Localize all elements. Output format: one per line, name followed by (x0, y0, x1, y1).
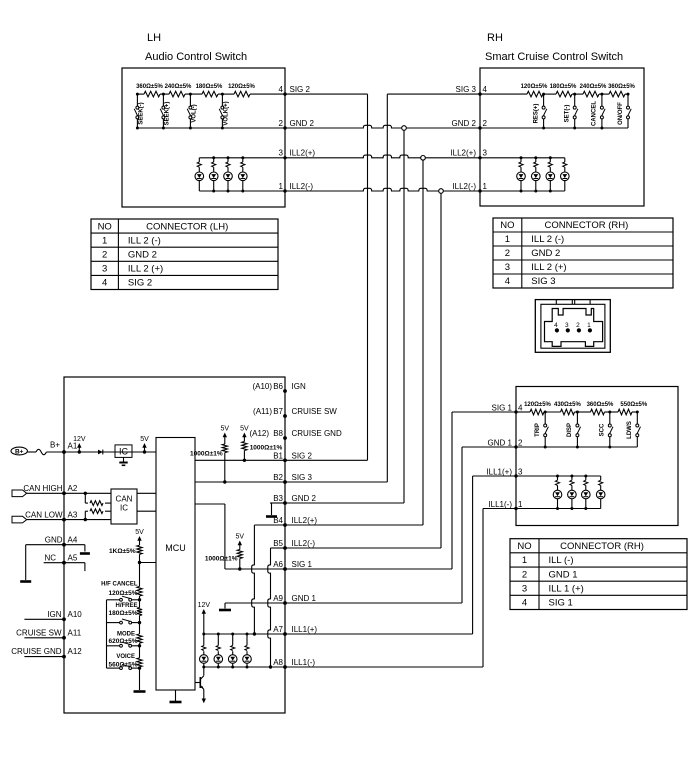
LED D10 pod (568, 476, 577, 509)
svg-text:5V: 5V (240, 426, 249, 433)
svg-text:DISP: DISP (567, 423, 573, 437)
svg-text:2: 2 (576, 322, 580, 329)
svg-text:CONNECTOR (LH): CONNECTOR (LH) (146, 221, 228, 232)
wire A5 NC stub (44, 563, 85, 571)
transistor Q1 (195, 667, 204, 689)
svg-text:H/FREE: H/FREE (115, 603, 137, 609)
svg-text:180Ω±5%: 180Ω±5% (550, 84, 577, 90)
svg-text:2: 2 (279, 119, 284, 128)
wire LH GND2 (136, 127, 285, 129)
resistor 1K ladder (109, 545, 142, 562)
svg-text:2: 2 (505, 248, 510, 259)
CAN IC U2 (111, 489, 137, 524)
wire A6 from MCU (195, 504, 285, 569)
resistor 1000 ohm A6 (205, 550, 243, 570)
svg-text:CAN LOW: CAN LOW (25, 510, 63, 519)
svg-text:ILL1(-): ILL1(-) (292, 658, 316, 667)
svg-text:3: 3 (565, 322, 569, 329)
pin A2 CAN HIGH (23, 484, 77, 495)
svg-text:5V: 5V (140, 436, 149, 443)
ground ladder (134, 690, 146, 693)
wire B3 stub (270, 503, 285, 515)
svg-text:2: 2 (522, 569, 527, 580)
svg-text:CANCEL: CANCEL (592, 101, 598, 126)
junction A6 pullup (238, 567, 241, 570)
diode D1 (98, 450, 103, 455)
pin A3 CAN LOW (25, 510, 78, 521)
svg-text:GND: GND (45, 535, 63, 544)
junction GND2 (402, 126, 407, 131)
svg-text:4: 4 (522, 598, 527, 609)
wire A11 CRUISE SW stub (24, 637, 64, 639)
resistor 180 ohm LH (196, 84, 223, 97)
wire A6 to pod SIG1 (285, 412, 516, 569)
LED D3 RH (546, 158, 555, 191)
svg-text:A5: A5 (68, 553, 78, 562)
svg-text:ILL 2 (-): ILL 2 (-) (531, 234, 564, 245)
svg-text:A7: A7 (273, 625, 283, 634)
CAN termination resistor R low (84, 509, 111, 521)
switch RES(+) RH (533, 93, 546, 128)
svg-text:240Ω±5%: 240Ω±5% (165, 84, 192, 90)
wire ILL1- pod (516, 508, 601, 510)
pin 3 ILL2(+) LH (279, 149, 316, 158)
CAN LOW flag (12, 516, 27, 523)
pin dots LH box edge (283, 92, 286, 192)
svg-text:180Ω±5%: 180Ω±5% (108, 610, 137, 617)
wire ILL2+ row (285, 155, 480, 158)
wire A1 to MCU (64, 451, 156, 453)
svg-text:1: 1 (587, 322, 591, 329)
svg-text:ILL2(-): ILL2(-) (292, 539, 316, 548)
svg-text:SIG 2: SIG 2 (292, 451, 313, 460)
svg-text:NO: NO (98, 221, 112, 232)
switch VOL(-) LH (187, 93, 197, 128)
svg-text:GND 1: GND 1 (488, 439, 513, 448)
wire RH SIG3 chain (480, 93, 628, 95)
svg-text:4: 4 (279, 85, 284, 94)
svg-text:120Ω±5%: 120Ω±5% (521, 84, 548, 90)
svg-text:4: 4 (102, 278, 107, 289)
pin A4 GND (45, 535, 78, 546)
svg-text:120Ω±5%: 120Ω±5% (228, 84, 255, 90)
pin B5 ILL2(-) (273, 539, 315, 550)
svg-text:B+: B+ (15, 449, 24, 456)
svg-text:H/F CANCEL: H/F CANCEL (101, 582, 138, 588)
svg-text:1: 1 (518, 500, 523, 509)
svg-text:CONNECTOR (RH): CONNECTOR (RH) (560, 541, 644, 552)
power 5V ladder (135, 529, 144, 545)
svg-text:1: 1 (483, 182, 488, 191)
MCU U1 (156, 438, 195, 691)
wire ILL1+ rail (204, 633, 285, 635)
wire GND2 to B3 (285, 130, 404, 503)
resistor 360 ohm RH (608, 84, 635, 97)
battery symbol B+ (11, 447, 27, 456)
svg-text:2: 2 (518, 439, 523, 448)
LED D6 module (214, 634, 223, 667)
svg-text:NC: NC (44, 553, 56, 562)
svg-text:ILL 2 (+): ILL 2 (+) (128, 264, 163, 275)
pin A11 CRUISE SW (16, 628, 82, 639)
svg-text:NO: NO (517, 541, 531, 552)
svg-text:Smart Cruise Control Switch: Smart Cruise Control Switch (485, 51, 623, 63)
LED D12 pod (596, 476, 605, 509)
power 5V after IC (140, 436, 149, 454)
table CONNECTOR (RH) lower (510, 539, 687, 610)
svg-text:RES(+): RES(+) (533, 104, 539, 124)
pin 1 ILL1(-) pod (488, 500, 523, 509)
svg-text:1000Ω±1%: 1000Ω±1% (190, 450, 223, 457)
switch MODE (107, 642, 142, 647)
wire CAN HIGH (27, 492, 111, 494)
resistor 550 ohm pod (618, 402, 648, 415)
wire B4 to A7 link (252, 525, 285, 636)
power 5V B2 pullup (221, 426, 230, 442)
wire LH ILL2- line (199, 190, 285, 192)
svg-text:(A11): (A11) (253, 407, 272, 416)
resistor 120 ohm RH (521, 84, 548, 97)
pin A12 CRUISE GND (11, 647, 82, 658)
LED D11 pod (582, 476, 591, 509)
switch CANCEL RH (592, 93, 605, 128)
wire SIG3 RH to B2 (285, 94, 480, 482)
svg-text:ILL1(-): ILL1(-) (488, 500, 512, 509)
wire A7 to pod ILL1+ (285, 476, 516, 634)
pin B6 IGN (273, 382, 306, 393)
LED D8 module (243, 634, 252, 667)
svg-text:ILL2(+): ILL2(+) (290, 149, 316, 158)
svg-text:1: 1 (505, 234, 510, 245)
svg-text:B+: B+ (50, 441, 60, 450)
svg-text:SIG 1: SIG 1 (549, 598, 573, 609)
svg-text:SIG 2: SIG 2 (290, 85, 311, 94)
LED D1 LH (195, 158, 204, 191)
power 12V A1 (73, 436, 86, 454)
svg-text:SET(-): SET(-) (565, 105, 571, 123)
junction ILL2+ (421, 156, 426, 161)
LED D2 LH (209, 158, 218, 191)
svg-text:B5: B5 (273, 539, 283, 548)
LED D4 RH (561, 158, 570, 191)
svg-text:ILL 1 (+): ILL 1 (+) (549, 583, 584, 594)
LED D7 module (228, 634, 237, 667)
resistor 360 ohm LH (136, 84, 163, 97)
wire B1 to MCU (195, 459, 285, 461)
svg-text:RH: RH (487, 32, 503, 44)
svg-text:A9: A9 (273, 594, 283, 603)
svg-text:LH: LH (147, 32, 161, 44)
junction dots LH LEDs (212, 156, 244, 192)
wire ILL2+ to B4 (285, 160, 423, 525)
svg-text:3: 3 (279, 149, 284, 158)
svg-text:A6: A6 (273, 560, 283, 569)
svg-text:ILL2(+): ILL2(+) (292, 516, 318, 525)
svg-text:B7: B7 (273, 407, 283, 416)
svg-text:ILL2(+): ILL2(+) (450, 149, 476, 158)
svg-text:SIG 1: SIG 1 (292, 560, 313, 569)
svg-text:A4: A4 (68, 535, 78, 544)
wire 12V to LED rail (203, 618, 205, 634)
wire RH GND2 (480, 127, 628, 129)
resistor 120 ohm LH (228, 84, 255, 97)
wire LH SIG2 chain (137, 93, 285, 95)
svg-text:550Ω±5%: 550Ω±5% (620, 402, 647, 408)
pin dots pod box edge (514, 410, 517, 510)
svg-text:B1: B1 (273, 451, 283, 460)
wire CAN IC to MCU 2 (137, 510, 156, 512)
svg-text:LDWS: LDWS (627, 421, 633, 439)
pin A8 ILL1(-) (273, 658, 315, 669)
svg-text:TRIP: TRIP (535, 423, 541, 437)
ground IC (119, 457, 127, 465)
pin 4 SIG 1 pod (492, 404, 523, 413)
svg-text:GND 1: GND 1 (549, 569, 578, 580)
pin A1 B+ (62, 442, 78, 454)
resistor 1000 ohm B1 (242, 442, 283, 461)
table CONNECTOR (RH) upper (493, 218, 673, 288)
wire SIG2 LH to B1 (285, 94, 368, 460)
svg-text:SCC: SCC (600, 423, 606, 436)
svg-text:IGN: IGN (47, 610, 61, 619)
LED D1 RH (517, 158, 526, 191)
svg-text:1: 1 (102, 235, 107, 246)
resistor 620 ohm MODE (108, 623, 142, 645)
power 12V LED (198, 602, 211, 618)
svg-text:A3: A3 (68, 510, 78, 519)
LH audio control switch box (122, 68, 285, 207)
svg-text:GND 2: GND 2 (292, 494, 317, 503)
svg-text:(A10): (A10) (252, 382, 272, 391)
CAN HIGH flag (12, 490, 27, 497)
label (A10) (252, 382, 272, 391)
pin 2 GND 2 RH (452, 119, 488, 128)
resistor 560 ohm VOICE (108, 646, 142, 669)
svg-text:GND 2: GND 2 (531, 248, 560, 259)
svg-text:360Ω±5%: 360Ω±5% (587, 402, 614, 408)
svg-text:CRUISE SW: CRUISE SW (292, 407, 338, 416)
LED D4 LH (239, 158, 248, 191)
switch SEEK(-) LH (134, 93, 144, 128)
svg-text:SIG 2: SIG 2 (128, 278, 152, 289)
svg-text:SIG 3: SIG 3 (531, 276, 555, 287)
wire LH ILL2+ line (199, 157, 285, 159)
wire ladder to ground (139, 668, 141, 690)
svg-text:3: 3 (483, 149, 488, 158)
junction B1 pullup (243, 459, 246, 462)
svg-text:1: 1 (522, 555, 527, 566)
switch SCC pod (600, 411, 613, 448)
ground B3 (266, 515, 277, 518)
title Smart Cruise Control Switch (485, 51, 623, 63)
wire GND2 row (285, 125, 480, 128)
wire A12 CRUISE GND stub (24, 656, 64, 658)
junction dots pod LEDs (556, 475, 587, 511)
CAN termination resistor R high (84, 492, 111, 506)
pin A10 IGN (47, 610, 82, 621)
svg-text:1000Ω±1%: 1000Ω±1% (205, 556, 238, 563)
svg-text:ILL1(+): ILL1(+) (292, 625, 318, 634)
label B+ wire (50, 441, 60, 450)
svg-text:A12: A12 (68, 647, 83, 656)
svg-text:2: 2 (102, 249, 107, 260)
emitter down arrow (202, 689, 206, 703)
pin 3 ILL2(+) RH (450, 149, 487, 158)
resistor 180 ohm RH (550, 84, 577, 97)
svg-text:ILL (-): ILL (-) (549, 555, 574, 566)
wire SIG1 chain (516, 411, 637, 413)
svg-text:CAN HIGH: CAN HIGH (23, 484, 62, 493)
pin A6 SIG 1 (273, 560, 312, 571)
svg-text:MODE: MODE (117, 632, 135, 638)
wire A9 to ground (225, 603, 285, 609)
svg-text:GND 2: GND 2 (452, 119, 477, 128)
svg-text:SEEK(-): SEEK(-) (139, 102, 145, 124)
svg-text:A8: A8 (273, 658, 283, 667)
svg-text:360Ω±5%: 360Ω±5% (136, 84, 163, 90)
svg-text:12V: 12V (73, 436, 86, 443)
ground MCU (170, 690, 182, 702)
pin B1 SIG 2 (273, 451, 312, 462)
svg-text:SIG 3: SIG 3 (456, 85, 477, 94)
label (A11) (253, 407, 272, 416)
resistor 180 ohm H/FREE (108, 600, 142, 617)
pin B3 GND 2 (273, 494, 316, 505)
svg-text:1000Ω±1%: 1000Ω±1% (250, 445, 283, 452)
svg-text:1KΩ±5%: 1KΩ±5% (109, 548, 136, 555)
pin 4 SIG 3 RH (456, 85, 488, 94)
svg-text:IC: IC (120, 504, 128, 513)
svg-text:CRUISE GND: CRUISE GND (11, 647, 61, 656)
pin A9 GND 1 (273, 594, 316, 605)
svg-text:GND 1: GND 1 (292, 594, 317, 603)
svg-text:VOICE: VOICE (116, 654, 135, 660)
svg-text:SIG 3: SIG 3 (292, 473, 313, 482)
resistor 240 ohm RH (580, 84, 607, 97)
fuse F1 (27, 449, 64, 454)
switch SEEK(+) LH (160, 93, 170, 128)
svg-text:3: 3 (522, 583, 527, 594)
LED D5 module (200, 634, 209, 667)
svg-text:3: 3 (505, 262, 510, 273)
LED D3 LH (224, 158, 233, 191)
wire ILL1+ pod (516, 475, 601, 477)
pin 1 ILL2(-) LH (279, 182, 314, 191)
switch DISP pod (567, 411, 580, 448)
svg-text:4: 4 (554, 322, 558, 329)
svg-text:120Ω±5%: 120Ω±5% (524, 402, 551, 408)
svg-text:5V: 5V (135, 529, 144, 536)
svg-text:5V: 5V (236, 534, 245, 541)
svg-text:CRUISE GND: CRUISE GND (292, 429, 342, 438)
svg-text:SEEK(+): SEEK(+) (165, 102, 171, 126)
ground A9 (219, 609, 231, 612)
switch H/F CANCEL (107, 596, 142, 602)
LED D2 RH (532, 158, 541, 191)
wire CAN IC to MCU 1 (137, 492, 156, 494)
svg-text:4: 4 (483, 85, 488, 94)
wire B2 to MCU (195, 481, 285, 483)
junction dots GND1 pod (544, 446, 612, 449)
svg-text:ILL 2 (+): ILL 2 (+) (531, 262, 566, 273)
resistor 430 ohm pod (554, 402, 581, 415)
wire switch common (106, 600, 108, 668)
svg-text:4: 4 (505, 276, 510, 287)
wire ILL2- to B5 (285, 193, 441, 548)
svg-text:120Ω±5%: 120Ω±5% (108, 590, 137, 597)
junction dots LH GND2 (136, 127, 224, 130)
svg-text:430Ω±5%: 430Ω±5% (554, 402, 581, 408)
resistor 120 ohm pod (524, 402, 551, 415)
svg-text:ILL1(+): ILL1(+) (486, 468, 512, 477)
wire A9 to pod GND1 (285, 447, 516, 603)
wire B5 to A8 link (268, 548, 285, 669)
wire CAN LOW (27, 519, 111, 521)
ground A4 (20, 580, 31, 583)
wire GND1 pod (516, 446, 637, 448)
svg-text:NO: NO (500, 220, 514, 231)
pin A7 ILL1(+) (273, 625, 317, 636)
pin 1 ILL2(-) RH (452, 182, 487, 191)
svg-text:A2: A2 (68, 484, 78, 493)
wire A4 to ground (26, 545, 64, 580)
resistor 120 ohm H/F CANCEL (101, 563, 142, 597)
svg-text:360Ω±5%: 360Ω±5% (608, 84, 635, 90)
switch VOICE (107, 665, 142, 670)
svg-text:B6: B6 (273, 382, 283, 391)
LED D9 pod (553, 476, 562, 509)
resistor 1000 ohm B2 (190, 442, 227, 483)
junction dots LED rails (202, 633, 248, 669)
pin 2 GND 1 pod (488, 439, 523, 448)
pin 4 SIG 2 LH (279, 85, 311, 94)
switch H/FREE (107, 616, 142, 625)
table CONNECTOR (LH) (91, 219, 278, 290)
junction dots RH GND2 (542, 127, 603, 130)
title RH (487, 32, 503, 44)
pin B2 SIG 3 (273, 473, 312, 484)
svg-text:IGN: IGN (292, 382, 306, 391)
wire RH ILL2+ line (480, 157, 565, 159)
switch SET(-) RH (565, 93, 578, 128)
svg-text:4: 4 (518, 404, 523, 413)
svg-text:VOL(-): VOL(-) (192, 104, 198, 122)
svg-text:B8: B8 (273, 429, 283, 438)
regulator IC (115, 445, 132, 458)
svg-text:180Ω±5%: 180Ω±5% (196, 84, 223, 90)
svg-text:ILL 2 (-): ILL 2 (-) (128, 235, 161, 246)
svg-text:GND 2: GND 2 (128, 249, 157, 260)
power 5V A6 pullup (236, 534, 245, 550)
svg-text:B2: B2 (273, 473, 283, 482)
pin dots RH box edge (478, 92, 481, 192)
svg-text:1: 1 (279, 182, 284, 191)
svg-text:IC: IC (119, 447, 129, 457)
wire ILL1- rail (204, 666, 285, 668)
svg-text:VOLK(+): VOLK(+) (224, 101, 230, 125)
pin A5 NC (44, 553, 77, 564)
svg-text:MCU: MCU (165, 543, 186, 553)
svg-text:A11: A11 (68, 628, 82, 637)
title LH (147, 32, 161, 44)
RH smart cruise control switch box (480, 68, 644, 206)
svg-text:ILL2(-): ILL2(-) (290, 182, 314, 191)
wire ILL2- row (285, 188, 480, 191)
svg-text:(A12): (A12) (249, 429, 269, 438)
wire RH ILL2- line (480, 190, 565, 192)
svg-text:GND 2: GND 2 (290, 119, 315, 128)
wire A4 stub (64, 545, 90, 554)
